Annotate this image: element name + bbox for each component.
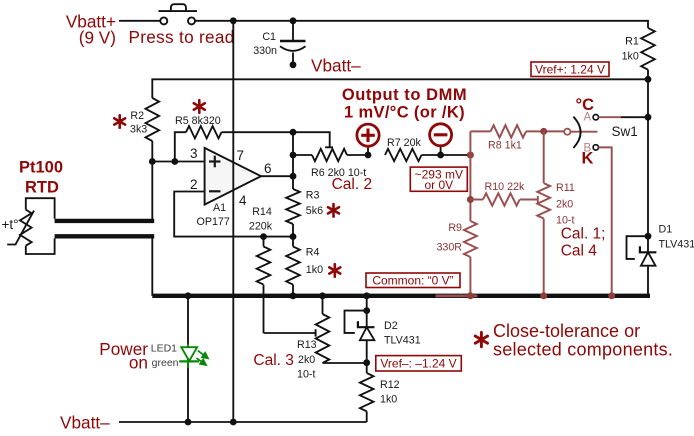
svg-text:A: A <box>584 111 592 123</box>
svg-text:Vref+: 1.24 V: Vref+: 1.24 V <box>535 62 605 76</box>
switch Sw1 pole <box>564 129 597 135</box>
op-amp A1 OP177 <box>190 146 272 228</box>
svg-text:Vbatt–: Vbatt– <box>60 412 110 432</box>
junction op-amp V- / bottom rail <box>230 419 237 426</box>
svg-text:D1: D1 <box>659 224 673 236</box>
resistor R5 8k320 (feedback) <box>175 115 293 162</box>
junction at button output <box>230 17 237 24</box>
resistor R9 330R <box>436 221 476 296</box>
node label Common: 0 V <box>366 273 460 288</box>
wire riser RTD top lead to +input <box>151 162 153 220</box>
svg-text:TLV431: TLV431 <box>659 238 694 250</box>
resistor R4 1k0 <box>286 247 323 296</box>
svg-text:A1: A1 <box>213 202 226 214</box>
potentiometer R11 2k0 10-t <box>537 131 575 295</box>
svg-text:R13: R13 <box>297 339 317 351</box>
svg-text:or 0V: or 0V <box>424 178 453 192</box>
svg-text:Press to read: Press to read <box>129 27 235 47</box>
wire thick RTD lead bottom <box>55 234 155 238</box>
junction minus terminal <box>437 152 444 159</box>
svg-text:1 mV/°C (or /K): 1 mV/°C (or /K) <box>344 104 465 122</box>
svg-text:3: 3 <box>190 146 198 161</box>
svg-text:4: 4 <box>239 193 247 208</box>
legend asterisk note <box>475 321 673 360</box>
LED1 green power indicator <box>151 343 208 370</box>
svg-text:K: K <box>582 150 594 168</box>
label Vbatt+ (9 V) <box>66 12 116 48</box>
shunt reference D1 TLV431 <box>627 224 694 296</box>
svg-text:Cal. 1;: Cal. 1; <box>561 226 606 243</box>
svg-text:green: green <box>152 357 179 369</box>
svg-text:Close-tolerance or: Close-tolerance or <box>493 321 640 341</box>
svg-text:Vbatt–: Vbatt– <box>311 56 361 76</box>
potentiometer R13 2k0 10-t Cal. 3 <box>297 296 367 381</box>
svg-text:D2: D2 <box>384 320 398 332</box>
wire top rail <box>195 21 648 28</box>
wire thick RTD lead top <box>55 219 155 223</box>
svg-text:Sw1: Sw1 <box>612 124 638 139</box>
svg-text:R11: R11 <box>556 182 575 194</box>
svg-text:7: 7 <box>237 148 245 163</box>
junction Vref- node <box>363 359 370 366</box>
junction R9 / rail <box>467 292 474 299</box>
wire riser RTD bottom lead to common rail <box>151 236 153 295</box>
node label Vref-: -1.24 V <box>376 356 462 371</box>
junction R11 / rail <box>540 292 547 299</box>
svg-text:2k0: 2k0 <box>556 199 573 211</box>
wire op-amp -input (pin 2) loop <box>174 192 293 237</box>
junction D2 / rail <box>363 292 370 299</box>
svg-text:220k: 220k <box>249 221 273 233</box>
svg-text:330R: 330R <box>436 242 462 254</box>
svg-text:Vref–: –1.24 V: Vref–: –1.24 V <box>380 356 456 370</box>
junction R5/wiper node <box>290 129 297 136</box>
resistor R7 20k <box>385 137 441 161</box>
wire common rail maroon segment <box>436 294 478 297</box>
svg-text:(9 V): (9 V) <box>79 28 116 48</box>
svg-text:LED1: LED1 <box>151 343 177 355</box>
svg-text:Pt100: Pt100 <box>19 159 63 177</box>
junction at C1 top <box>290 17 297 24</box>
RTD sensor (Pt100) <box>2 198 55 254</box>
junction R8 / R11 top <box>540 128 547 135</box>
asterisk mark for R2 <box>114 115 125 127</box>
resistor R2 3k3 <box>130 98 159 162</box>
svg-text:R4: R4 <box>306 247 320 259</box>
svg-text:330n: 330n <box>253 45 277 57</box>
svg-text:Common: “0 V”: Common: “0 V” <box>372 273 453 287</box>
wire R14 to R13 wiper <box>264 332 316 334</box>
wire Vref+ rail <box>152 79 648 98</box>
label Power on <box>99 339 148 373</box>
node label ~293 mV or 0V <box>410 167 467 192</box>
junction switch B riser / rail <box>608 292 615 299</box>
junction R14 top <box>260 233 267 240</box>
svg-text:3k3: 3k3 <box>130 123 147 135</box>
junction R3/R4 feedback node <box>290 233 297 240</box>
node label Vref+: 1.24 V <box>531 62 609 77</box>
switch contact A <box>593 115 648 120</box>
svg-text:R10 22k: R10 22k <box>485 181 525 193</box>
svg-text:Cal 4: Cal 4 <box>561 243 598 260</box>
output terminal plus <box>357 124 379 155</box>
junction output node <box>290 173 297 180</box>
label Output to DMM <box>342 86 467 122</box>
svg-text:selected components.: selected components. <box>493 340 673 360</box>
label Cal. 1; Cal 4 <box>561 226 606 260</box>
resistor R12 1k0 <box>360 363 400 422</box>
junction R13 / rail <box>319 292 326 299</box>
svg-text:1k0: 1k0 <box>380 394 397 406</box>
resistor R3 5k6 <box>286 189 323 247</box>
svg-text:1k0: 1k0 <box>622 50 639 62</box>
switch contact B <box>593 145 612 296</box>
wire LED column <box>187 296 189 422</box>
label Pt100 RTD <box>19 159 63 197</box>
junction +input / R2 <box>149 158 156 165</box>
shunt reference D2 TLV431 <box>345 296 421 363</box>
wire op-amp supply column (pin 7 / pin 4) <box>232 21 234 422</box>
capacitor C1 330n <box>253 21 305 65</box>
svg-text:C1: C1 <box>262 31 276 43</box>
junction +input / R5 <box>171 158 178 165</box>
svg-text:OP177: OP177 <box>197 216 230 228</box>
resistor R10 22k (to R11 wiper) <box>470 181 537 206</box>
svg-text:Output to DMM: Output to DMM <box>342 86 467 104</box>
svg-text:2k0: 2k0 <box>298 354 315 366</box>
svg-text:2: 2 <box>190 177 198 192</box>
svg-text:on: on <box>129 353 148 373</box>
label degC / A / B / K / Sw1 <box>576 96 595 114</box>
svg-text:R5 8k320: R5 8k320 <box>175 115 221 127</box>
svg-text:R7 20k: R7 20k <box>387 137 422 149</box>
svg-text:1k0: 1k0 <box>306 264 323 276</box>
wire minus terminal to divider <box>441 154 471 156</box>
svg-text:Cal. 2: Cal. 2 <box>332 176 373 193</box>
wire Vbatt- bottom rail <box>119 421 367 423</box>
svg-text:R14: R14 <box>252 206 272 218</box>
svg-text:R2: R2 <box>130 110 144 122</box>
svg-text:RTD: RTD <box>25 179 59 197</box>
resistor R8 1k1 <box>470 125 564 151</box>
junction A wire / R1 column <box>645 114 652 121</box>
svg-text:R3: R3 <box>306 190 320 202</box>
svg-text:R8 1k1: R8 1k1 <box>488 140 522 152</box>
resistor R14 220k <box>249 206 273 333</box>
svg-text:Cal. 3: Cal. 3 <box>253 352 294 369</box>
junction LED column / rail <box>185 292 192 299</box>
wire +input (pin 3) <box>152 161 204 163</box>
svg-text:R12: R12 <box>380 379 400 391</box>
resistor R1 1k0 <box>622 28 655 79</box>
wire output feedback column <box>292 132 294 189</box>
junction R1 bottom / Vref+ <box>645 76 652 83</box>
wire op-amp output (pin 6) <box>261 175 293 177</box>
junction R10 row <box>467 196 474 203</box>
svg-text:R9: R9 <box>448 222 462 234</box>
asterisk mark for R5 <box>194 100 205 113</box>
junction R4 / rail <box>290 292 297 299</box>
junction plus terminal <box>365 152 372 159</box>
svg-text:TLV431: TLV431 <box>384 335 421 347</box>
switch Sw1 arc <box>573 117 580 148</box>
pushbutton switch "Press to read" <box>159 4 198 24</box>
node Vbatt- at C1 bottom <box>290 61 297 68</box>
svg-text:5k6: 5k6 <box>306 205 323 217</box>
junction R6 left <box>290 152 297 159</box>
svg-text:10-t: 10-t <box>297 369 315 381</box>
wire Vbatt+ to switch SW <box>119 20 161 22</box>
asterisk mark for R3 <box>328 204 339 217</box>
svg-text:6: 6 <box>264 161 272 176</box>
potentiometer R6 2k0 10-t Cal. 2 <box>293 132 368 179</box>
wire R1 column to D1 <box>647 79 649 252</box>
svg-text:+t°: +t° <box>2 217 19 232</box>
wire maroon divider column <box>469 131 471 221</box>
output terminal minus <box>430 124 452 155</box>
junction output to maroon divider <box>467 152 474 159</box>
svg-text:R1: R1 <box>625 35 639 47</box>
junction LED / bottom rail <box>185 419 192 426</box>
asterisk mark for R4 <box>329 264 340 277</box>
wire common 0V rail <box>152 294 650 298</box>
